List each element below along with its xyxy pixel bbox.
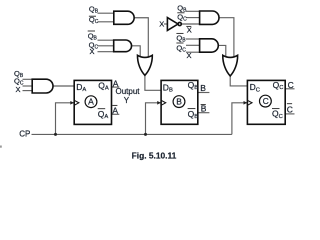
svg-text:A: A (88, 97, 94, 107)
svg-text:Y: Y (124, 96, 130, 105)
svg-text:X: X (16, 85, 21, 94)
svg-text:B: B (176, 97, 182, 107)
svg-text:A: A (112, 105, 118, 115)
svg-text:X: X (90, 47, 95, 56)
svg-text:X: X (187, 51, 192, 60)
svg-text:C: C (263, 96, 269, 106)
svg-text:CP: CP (19, 130, 30, 139)
svg-text:Fig. 5.10.11: Fig. 5.10.11 (132, 150, 177, 160)
svg-text:C: C (287, 105, 293, 115)
svg-text:B: B (200, 83, 206, 93)
svg-text:X: X (159, 19, 164, 28)
svg-text:Output: Output (116, 87, 141, 96)
svg-text:C: C (288, 80, 294, 90)
svg-text:B: B (201, 104, 207, 114)
